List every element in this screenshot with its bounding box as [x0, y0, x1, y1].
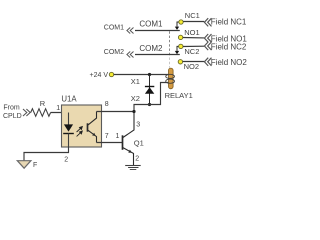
- field ground: [17, 161, 31, 169]
- wire pin 7 to Q1 base: [97, 142, 123, 144]
- svg-text:8: 8: [105, 101, 109, 108]
- svg-text:3: 3: [136, 121, 140, 128]
- wire NC1: [183, 21, 204, 23]
- svg-text:COM2: COM2: [139, 44, 163, 53]
- wire NO1: [183, 37, 204, 39]
- svg-text:X2: X2: [131, 94, 140, 103]
- chevron COM1: [127, 28, 134, 34]
- junction X2: [148, 103, 151, 106]
- phototransistor in U1A: [88, 112, 97, 143]
- svg-text:NC2: NC2: [184, 47, 199, 56]
- svg-text:7: 7: [105, 133, 109, 140]
- chevron field NC1: [204, 18, 211, 26]
- svg-text:R: R: [40, 99, 46, 108]
- svg-text:+24 V: +24 V: [90, 72, 109, 79]
- svg-text:X1: X1: [131, 77, 140, 86]
- ground (earth) at Q1 emitter: [125, 166, 141, 170]
- svg-text:COM1: COM1: [104, 24, 124, 31]
- mechanical link (dashed): [169, 31, 171, 56]
- armature pole 1: [177, 22, 179, 27]
- wire NC2: [183, 45, 204, 47]
- chevron field NC2: [204, 42, 211, 50]
- wire COM2: [135, 54, 180, 56]
- node +24 V: [109, 72, 113, 76]
- contact NO1: [178, 35, 182, 39]
- contact NC2: [179, 44, 183, 48]
- svg-text:1: 1: [116, 133, 120, 140]
- svg-text:COM2: COM2: [104, 49, 124, 56]
- svg-text:RELAY1: RELAY1: [165, 91, 193, 100]
- contact NC1: [179, 20, 183, 24]
- svg-text:Field NO2: Field NO2: [211, 58, 248, 67]
- svg-text:Field NC2: Field NC2: [211, 43, 247, 52]
- resistor R: [31, 109, 51, 117]
- off-page connector From CPLD: [3, 105, 30, 121]
- svg-text:2: 2: [135, 156, 139, 163]
- LED inside U1A: [63, 113, 74, 148]
- chevron field NO2: [204, 58, 211, 66]
- wire pin 2 of U1A to field ground: [24, 147, 69, 161]
- svg-text:2: 2: [64, 156, 68, 163]
- wire pin 1: [51, 112, 69, 114]
- svg-text:From: From: [3, 105, 20, 112]
- junction collector node: [132, 110, 135, 113]
- armature pole 2: [177, 46, 179, 51]
- wire coil bottom to X2 to collector junction: [134, 83, 169, 112]
- svg-text:Q1: Q1: [134, 139, 144, 148]
- svg-text:U1A: U1A: [61, 95, 77, 104]
- flyback diode: [145, 75, 154, 105]
- svg-text:F: F: [33, 162, 37, 169]
- svg-text:NC1: NC1: [185, 11, 200, 20]
- chevron COM2: [127, 52, 134, 58]
- wire COM1: [135, 30, 180, 32]
- svg-text:COM1: COM1: [139, 20, 163, 29]
- wire NO2: [183, 61, 205, 63]
- svg-text:CPLD: CPLD: [3, 113, 22, 120]
- svg-text:1: 1: [56, 105, 60, 112]
- svg-text:NO1: NO1: [184, 28, 199, 37]
- mechanical link (dashed, lower faint part): [169, 58, 171, 68]
- svg-text:NO2: NO2: [184, 62, 199, 71]
- relay coil RELAY1: [166, 68, 175, 89]
- wire pin 8 to collector junction: [97, 111, 135, 113]
- chevron field NO1: [204, 34, 211, 42]
- contact NO2: [178, 60, 182, 64]
- light emission arrows: [77, 127, 83, 137]
- transistor Q1: [123, 112, 135, 166]
- optocoupler U1A box: [62, 105, 102, 147]
- svg-text:Field NC1: Field NC1: [211, 18, 247, 27]
- wire +24V to coil: [114, 74, 170, 76]
- junction X1: [148, 73, 151, 76]
